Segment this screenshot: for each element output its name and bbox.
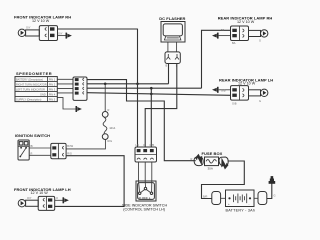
svg-text:G: G: [274, 194, 276, 198]
wire fuse box to battery: [202, 161, 245, 199]
connector ignition: [51, 143, 66, 158]
lamp REAR LH: [249, 89, 268, 96]
connector battery left: [212, 192, 221, 205]
wire w4 rear lamps: [87, 93, 231, 96]
lamp FRONT RH: [18, 29, 39, 36]
side indicator switch label: [122, 203, 167, 211]
svg-text:FUSE BOX: FUSE BOX: [202, 151, 223, 156]
svg-text:GND: GND: [40, 92, 46, 96]
svg-text:DC FLASHER: DC FLASHER: [159, 16, 185, 21]
svg-text:12 V 10 W: 12 V 10 W: [238, 82, 256, 86]
wire w3: [87, 87, 202, 89]
svg-text:Br/W: Br/W: [67, 144, 73, 148]
battery BT1: [226, 190, 255, 207]
ignition switch S1: [18, 140, 29, 160]
arrow feed rear RH: [212, 34, 217, 38]
svg-text:SUPPLY (Description): SUPPLY (Description): [16, 97, 42, 101]
svg-text:O: O: [56, 196, 58, 200]
arrow to frame speedometer: [76, 106, 78, 112]
svg-text:G/B: G/B: [150, 143, 155, 147]
svg-text:BATTERY - 3Ah: BATTERY - 3Ah: [226, 208, 256, 212]
svg-text:O/Y: O/Y: [27, 196, 32, 200]
lamp FRONT LH: [18, 200, 38, 207]
svg-text:PIN 4: PIN 4: [49, 92, 56, 96]
svg-text:PIN 3: PIN 3: [49, 87, 56, 91]
svg-text:G/B: G/B: [221, 88, 226, 92]
speedometer U1: [15, 77, 57, 102]
svg-text:B/L: B/L: [232, 41, 236, 45]
svg-text:G: G: [259, 99, 261, 103]
rear indicator lamp RH label: [218, 16, 273, 24]
connector switch 3-pin: [135, 147, 157, 162]
svg-text:BATTERY (Description): BATTERY (Description): [16, 77, 43, 81]
svg-text:30A: 30A: [208, 166, 213, 170]
connector DC flasher: [165, 52, 180, 64]
wire fuse to ignition: [66, 140, 105, 149]
svg-text:R: R: [31, 151, 33, 155]
svg-text:B/L: B/L: [221, 28, 225, 32]
svg-text:12 V 10 W: 12 V 10 W: [237, 20, 255, 24]
svg-text:12 V 10 W: 12 V 10 W: [32, 19, 50, 23]
wires flasher to connector: [168, 42, 177, 52]
connector rear LH: [231, 86, 249, 101]
svg-text:RIGHT TURN INDICATOR: RIGHT TURN INDICATOR: [16, 82, 47, 86]
wire flasher L down to switch: [145, 64, 177, 148]
svg-text:B: B: [166, 64, 168, 68]
side indicator switch S2: [136, 181, 156, 201]
wire rear RH riser: [202, 30, 231, 88]
wires ignition to connector: [29, 148, 51, 155]
svg-text:R: R: [108, 108, 110, 112]
svg-text:PIN 1: PIN 1: [49, 77, 56, 81]
front indicator lamp RH label: [14, 15, 71, 23]
wire battery to ground: [267, 182, 272, 199]
arrow feed rear LH: [212, 88, 217, 92]
node left turn junction: [150, 87, 153, 90]
svg-text:B/R: B/R: [203, 195, 207, 199]
wires connector to side switch: [139, 162, 152, 181]
lamp REAR RH: [249, 30, 268, 37]
svg-text:+: +: [228, 202, 230, 206]
wire battery to connector right: [254, 197, 258, 199]
connector front RH: [39, 26, 57, 41]
svg-text:LEFT TURN INDICATOR: LEFT TURN INDICATOR: [16, 87, 45, 91]
wire front RH down to switch connector: [137, 29, 139, 147]
wire w1 battery bus: [87, 80, 196, 161]
svg-text:10 A: 10 A: [109, 126, 115, 130]
wire fuse feed: [104, 84, 106, 112]
svg-text:G/Y: G/Y: [26, 26, 31, 30]
wire speedometer pin5 to arrow: [57, 98, 75, 109]
svg-text:G: G: [259, 39, 261, 43]
wire left turn to switch connector: [150, 88, 152, 147]
svg-text:LB: LB: [136, 143, 139, 147]
node fuse tap: [104, 83, 107, 86]
node front RH junction: [136, 83, 139, 86]
svg-text:PIN 2: PIN 2: [49, 82, 56, 86]
svg-text:G/Y: G/Y: [58, 32, 63, 36]
connector fuse box left: [194, 154, 203, 166]
svg-text:G/B: G/B: [232, 101, 237, 105]
wire flasher B down: [168, 64, 170, 84]
connector fuse box right: [219, 157, 228, 169]
ground battery: [269, 176, 276, 184]
svg-text:IGNITION SWITCH: IGNITION SWITCH: [15, 133, 50, 138]
svg-text:12 V 10 W: 12 V 10 W: [31, 191, 49, 195]
svg-text:SPEEDOMETER: SPEEDOMETER: [16, 71, 52, 76]
svg-text:(CONTROL SWITCH LH): (CONTROL SWITCH LH): [123, 208, 165, 212]
connector rear RH: [231, 26, 249, 41]
svg-text:PIN 5: PIN 5: [49, 97, 56, 101]
connector speedometer 4-pin: [73, 77, 87, 100]
connector battery right: [258, 192, 267, 205]
svg-text:Br: Br: [31, 144, 34, 148]
svg-text:-: -: [249, 202, 250, 206]
wire ignition row2 to front LH: [55, 156, 124, 207]
fuse box F2 30A: [205, 157, 219, 170]
connector front LH: [38, 196, 55, 210]
svg-text:R OFF L: R OFF L: [139, 196, 151, 200]
svg-text:R/G: R/G: [67, 152, 72, 156]
fuse F1 10A: [102, 108, 115, 143]
svg-text:R/G: R/G: [108, 139, 113, 143]
wire connector to battery: [221, 197, 226, 199]
ground arrow front RH: [58, 33, 72, 39]
DC flasher U2: [161, 22, 185, 43]
wire front RH feed: [58, 28, 138, 30]
wire w2: [87, 83, 169, 85]
rear indicator lamp LH label: [219, 77, 273, 85]
svg-text:R: R: [191, 157, 193, 161]
front indicator lamp LH label: [14, 187, 71, 195]
ground arrow front LH: [55, 197, 69, 203]
svg-text:O: O: [143, 143, 145, 147]
wires speedometer to connector: [57, 79, 73, 93]
